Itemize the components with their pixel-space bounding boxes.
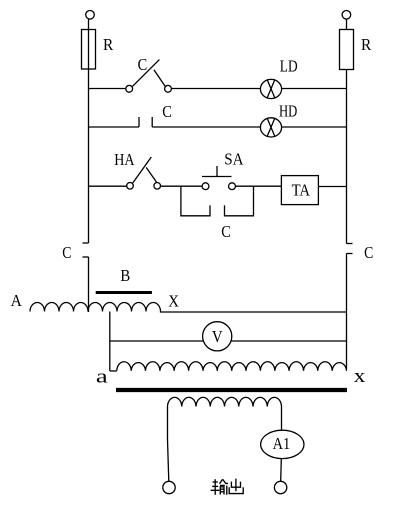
svg-text:A1: A1 (273, 434, 291, 453)
svg-text:LD: LD (280, 56, 298, 75)
svg-text:a: a (96, 367, 108, 387)
svg-text:X: X (168, 291, 179, 310)
svg-text:x: x (354, 367, 367, 387)
svg-text:HD: HD (279, 101, 297, 120)
svg-text:HA: HA (114, 150, 134, 169)
svg-text:V: V (212, 327, 223, 346)
svg-text:C: C (162, 102, 172, 121)
svg-text:SA: SA (224, 150, 243, 169)
svg-text:C: C (62, 243, 71, 262)
svg-text:TA: TA (292, 181, 311, 200)
svg-text:C: C (221, 222, 231, 241)
svg-text:C: C (138, 55, 148, 74)
svg-text:C: C (364, 243, 373, 262)
svg-text:B: B (120, 266, 130, 285)
svg-text:A: A (11, 291, 22, 310)
svg-text:R: R (103, 35, 113, 54)
svg-text:R: R (361, 35, 371, 54)
